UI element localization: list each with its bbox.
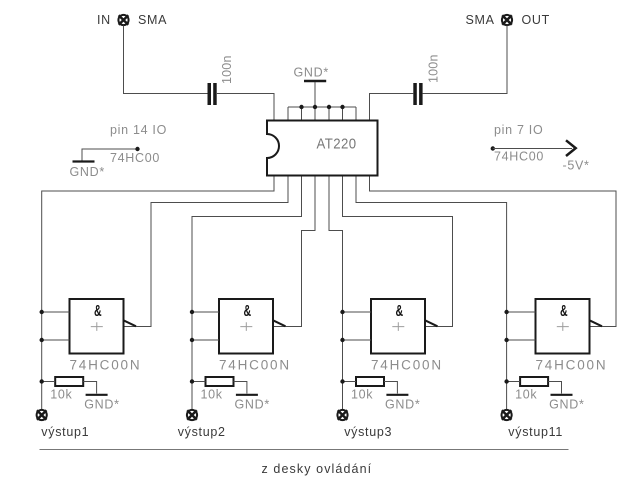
svg-text:OUT: OUT bbox=[522, 13, 551, 27]
junction dot R3 bbox=[340, 379, 344, 383]
wire C1 to IC pin bbox=[217, 94, 274, 121]
wire IN connector to C1 bbox=[124, 26, 208, 94]
wire gate1 input B bbox=[42, 339, 70, 341]
svg-text:GND*: GND* bbox=[294, 66, 329, 80]
gate U2C 74HC00N box bbox=[371, 299, 425, 354]
output slash gate4 bbox=[590, 320, 603, 326]
svg-text:GND*: GND* bbox=[84, 398, 119, 412]
gate U2D 74HC00N box bbox=[536, 299, 590, 354]
wire arrow -5V bbox=[493, 148, 572, 150]
svg-text:74HC00N: 74HC00N bbox=[371, 358, 443, 373]
svg-text:SMA: SMA bbox=[466, 13, 495, 27]
svg-text:výstup1: výstup1 bbox=[41, 425, 89, 439]
svg-text:100n: 100n bbox=[427, 54, 441, 83]
junction dots gate2 inputs bbox=[190, 310, 194, 342]
junction dots gate3 inputs bbox=[340, 310, 344, 342]
junction dot pin7 bbox=[491, 146, 495, 150]
wire pin14 stub bbox=[82, 149, 138, 161]
wire gate2 input A bbox=[192, 311, 219, 313]
svg-text:pin 14 IO: pin 14 IO bbox=[110, 123, 167, 137]
wire gate4 input A bbox=[507, 311, 536, 313]
resistor R4 bbox=[520, 377, 548, 386]
IC U1 body AT220 bbox=[267, 121, 378, 176]
junction dot R4 bbox=[504, 379, 508, 383]
gate U2A 74HC00N box bbox=[70, 299, 124, 354]
ground symbol (R3) bbox=[386, 394, 408, 396]
capacitor C2 bbox=[413, 83, 422, 105]
junction dot R2 bbox=[190, 379, 194, 383]
wire IC pin1 to gate1 inputs net bbox=[42, 177, 274, 410]
wire IC pin7 to gate4 inputs net bbox=[356, 177, 507, 410]
junction dots gate1 inputs bbox=[40, 310, 44, 342]
label + (gate4) bbox=[557, 322, 569, 331]
wire IC top pins bbox=[288, 107, 356, 121]
svg-text:&: & bbox=[395, 302, 403, 320]
output slash gate2 bbox=[273, 320, 286, 326]
svg-text:GND*: GND* bbox=[549, 398, 584, 412]
wire C2 to IC pin bbox=[370, 94, 414, 121]
wire IC pin6 to gate3 output bbox=[343, 177, 453, 327]
capacitor C1 bbox=[208, 83, 217, 105]
svg-text:&: & bbox=[243, 302, 251, 320]
svg-text:74HC00N: 74HC00N bbox=[536, 358, 608, 373]
svg-text:z desky ovládání: z desky ovládání bbox=[262, 462, 373, 476]
separator line bottom bbox=[40, 449, 569, 451]
wire top pin bar bbox=[288, 106, 356, 108]
svg-text:100n: 100n bbox=[220, 55, 234, 84]
svg-text:GND*: GND* bbox=[235, 398, 270, 412]
svg-text:&: & bbox=[560, 302, 568, 320]
label + (gate3) bbox=[392, 322, 404, 331]
svg-text:10k: 10k bbox=[50, 388, 72, 402]
wire R1 left bbox=[42, 381, 56, 383]
wire IC pin8 to gate4 output bbox=[370, 177, 617, 327]
svg-text:AT220: AT220 bbox=[317, 135, 357, 152]
wire gate1 input A bbox=[42, 311, 70, 313]
wire R1 to ground bbox=[83, 382, 96, 394]
gate U2B 74HC00N box bbox=[219, 299, 273, 354]
ground symbol (R4) bbox=[551, 394, 573, 396]
wire gate3 input A bbox=[343, 311, 372, 313]
svg-text:10k: 10k bbox=[351, 388, 373, 402]
svg-text:GND*: GND* bbox=[385, 398, 420, 412]
svg-text:74HC00: 74HC00 bbox=[494, 150, 544, 164]
resistor R3 bbox=[356, 377, 384, 386]
wire IC pin5 to gate3 inputs net bbox=[329, 177, 343, 410]
wire R2 left bbox=[192, 381, 206, 383]
connector X2 SMA OUT bbox=[502, 15, 512, 25]
resistor R2 bbox=[206, 377, 234, 386]
connector výstup2 bbox=[187, 410, 197, 420]
wire gate3 input B bbox=[343, 339, 372, 341]
ground symbol (R1) bbox=[86, 394, 108, 396]
wire IC pin4 to gate2 output bbox=[273, 177, 315, 327]
svg-text:výstup11: výstup11 bbox=[508, 425, 563, 439]
svg-text:74HC00N: 74HC00N bbox=[70, 358, 142, 373]
wire OUT connector to C2 bbox=[423, 26, 507, 94]
connector X1 SMA IN bbox=[118, 15, 128, 25]
junction dot pin14 bbox=[135, 147, 139, 151]
svg-text:10k: 10k bbox=[515, 388, 537, 402]
output slash gate1 bbox=[124, 320, 137, 326]
wire R3 left bbox=[343, 381, 357, 383]
wire R3 to ground bbox=[384, 382, 397, 394]
wire R4 left bbox=[507, 381, 520, 383]
label + (gate1) bbox=[91, 322, 103, 331]
connector výstup1 bbox=[37, 410, 47, 420]
svg-text:pin 7 IO: pin 7 IO bbox=[494, 123, 543, 137]
ground symbol (top center) bbox=[304, 80, 326, 83]
connector výstup11 bbox=[502, 410, 512, 420]
junction dot R1 bbox=[40, 379, 44, 383]
junction dots on top pin bar bbox=[299, 105, 344, 109]
svg-text:GND*: GND* bbox=[70, 165, 105, 179]
svg-text:výstup3: výstup3 bbox=[344, 425, 392, 439]
wire R2 to ground bbox=[234, 382, 247, 394]
arrowhead -5V bbox=[566, 140, 576, 156]
svg-text:74HC00: 74HC00 bbox=[110, 151, 160, 165]
svg-text:74HC00N: 74HC00N bbox=[219, 358, 291, 373]
svg-text:10k: 10k bbox=[201, 388, 223, 402]
wire IC pin2 to gate1 output bbox=[124, 177, 289, 327]
junction dots gate4 inputs bbox=[504, 310, 508, 342]
wire gate2 input B bbox=[192, 339, 219, 341]
svg-text:IN: IN bbox=[97, 13, 111, 27]
output slash gate3 bbox=[425, 320, 438, 326]
svg-text:výstup2: výstup2 bbox=[178, 425, 226, 439]
svg-text:-5V*: -5V* bbox=[563, 159, 590, 173]
connector výstup3 bbox=[337, 410, 347, 420]
label + (gate2) bbox=[240, 322, 252, 331]
ground symbol (R2) bbox=[236, 394, 258, 396]
resistor R1 bbox=[55, 377, 83, 386]
wire IC pin3 to gate2 inputs net bbox=[192, 177, 302, 410]
wire R4 to ground bbox=[548, 382, 561, 394]
wire GND to pin bar bbox=[314, 82, 316, 107]
ground symbol (left label group) bbox=[73, 160, 95, 162]
svg-text:SMA: SMA bbox=[138, 13, 167, 27]
wire gate4 input B bbox=[507, 339, 536, 341]
svg-text:&: & bbox=[94, 302, 102, 320]
